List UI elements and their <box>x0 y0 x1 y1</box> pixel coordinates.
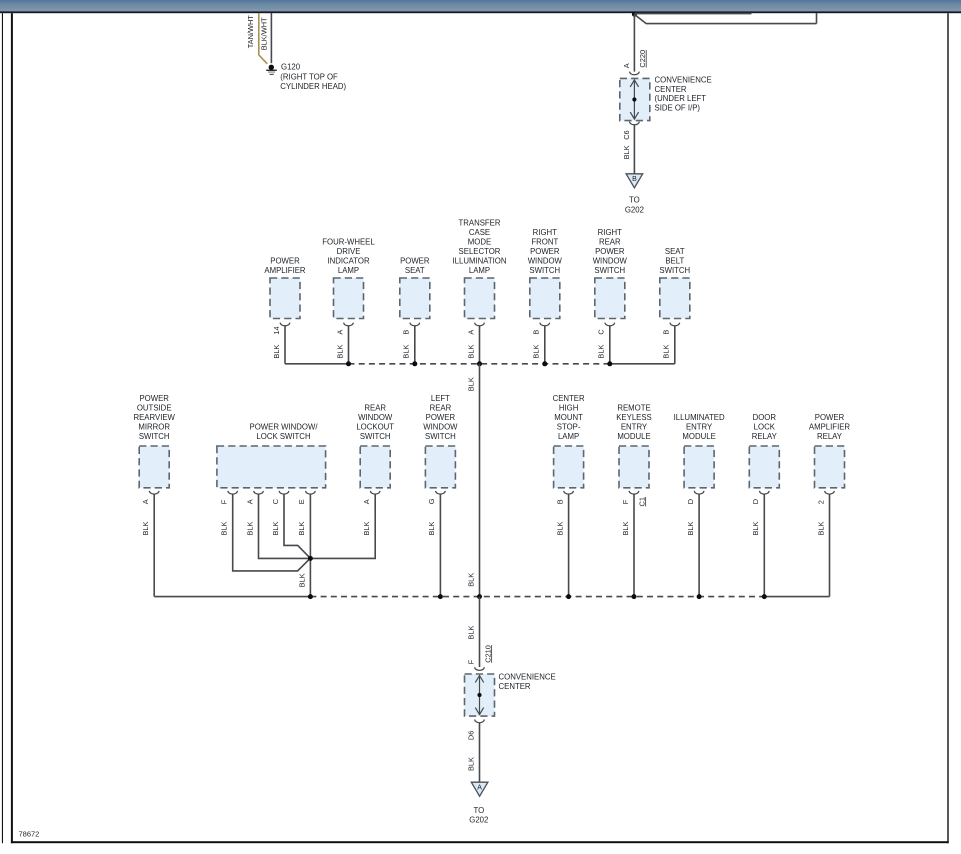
svg-text:A: A <box>141 499 150 504</box>
wire BLK down to bus 2 at x=634.0 <box>633 494 635 596</box>
svg-text:LAMP: LAMP <box>558 432 579 441</box>
page header bar <box>0 0 961 11</box>
svg-text:CONVENIENCE: CONVENIENCE <box>499 673 556 682</box>
connector cup C6 <box>630 122 640 125</box>
svg-text:BLK: BLK <box>662 345 671 359</box>
connector cup illuminated entry module <box>694 491 704 494</box>
label left rear power window switch <box>423 394 458 441</box>
component box right rear power window switch <box>595 278 625 319</box>
connector cup door lock relay <box>760 491 770 494</box>
junction dot on bus 1 at x=348.5 <box>346 361 351 366</box>
svg-text:POWER: POWER <box>139 394 169 403</box>
wire BLK down to bus 2 at x=699.1 <box>698 494 700 596</box>
connector cup pin F power window/lock switch <box>228 491 238 494</box>
svg-text:SWITCH: SWITCH <box>425 432 456 441</box>
wire BLK/WHT to G120 <box>270 13 272 63</box>
component box remote keyless entry module <box>619 446 649 488</box>
svg-text:POWER: POWER <box>595 247 625 256</box>
svg-text:CASE: CASE <box>469 228 490 237</box>
svg-text:BLK: BLK <box>245 521 254 535</box>
svg-text:BLK: BLK <box>751 521 760 535</box>
component box transfer case mode selector illumination lamp <box>465 278 495 319</box>
junction dot on bus 2 at x=568.6 <box>566 594 571 599</box>
svg-text:BLK: BLK <box>621 521 630 535</box>
wire BLK from right front power window switch to ground bus <box>544 326 546 364</box>
svg-text:LOCK: LOCK <box>754 422 776 431</box>
component box power window/lock switch <box>217 446 326 488</box>
svg-text:TRANSFER: TRANSFER <box>458 219 500 228</box>
svg-text:G: G <box>427 498 436 504</box>
svg-text:POWER: POWER <box>815 413 845 422</box>
svg-text:STOP-: STOP- <box>557 422 581 431</box>
label remote keyless entry module <box>616 403 652 441</box>
svg-text:BLK: BLK <box>466 573 475 587</box>
svg-text:REMOTE: REMOTE <box>617 403 650 412</box>
svg-text:ENTRY: ENTRY <box>686 422 713 431</box>
svg-text:MIRROR: MIRROR <box>138 422 170 431</box>
svg-text:A: A <box>466 330 475 335</box>
label power seat <box>400 257 430 276</box>
label TO G202 (top right) <box>625 195 644 214</box>
wire from splice to C220 <box>633 14 635 72</box>
junction dot on bus 2 at x=634.0 <box>632 594 637 599</box>
component box left rear power window switch <box>425 446 455 488</box>
svg-text:F: F <box>220 499 229 504</box>
label transfer case mode selector illumination lamp <box>452 219 506 276</box>
component box four-wheel drive indicator lamp <box>334 278 364 319</box>
wire BLK down to bus 2 at x=568.6 <box>568 494 570 596</box>
svg-text:LAMP: LAMP <box>469 266 490 275</box>
wire BLK from rear window lockout switch to splice <box>311 494 375 558</box>
svg-text:REAR: REAR <box>430 403 452 412</box>
wire BLK from D6 to ground G202 (bottom) <box>479 723 481 782</box>
label power window/lock switch <box>250 422 319 441</box>
svg-text:D6: D6 <box>466 731 475 740</box>
svg-text:DOOR: DOOR <box>753 413 777 422</box>
wire BLK pin F to splice <box>233 494 310 571</box>
svg-text:BLK: BLK <box>298 573 307 587</box>
label rear window lockout switch <box>356 403 394 441</box>
connector cup power seat <box>410 323 420 326</box>
svg-text:MODULE: MODULE <box>682 432 715 441</box>
svg-text:WINDOW: WINDOW <box>358 413 393 422</box>
svg-text:WINDOW: WINDOW <box>528 257 563 266</box>
svg-text:A: A <box>477 784 482 791</box>
ground symbol B to G202 <box>626 174 643 188</box>
svg-text:D: D <box>751 499 760 504</box>
svg-text:D: D <box>686 499 695 504</box>
svg-text:SWITCH: SWITCH <box>529 266 560 275</box>
svg-text:OUTSIDE: OUTSIDE <box>137 403 172 412</box>
wire BLK down to bus 2 at x=440.4 <box>439 494 441 596</box>
wire BLK pin A to splice <box>259 494 310 558</box>
svg-text:C: C <box>271 498 280 504</box>
component box illuminated entry module <box>684 446 714 488</box>
svg-text:REAR: REAR <box>364 403 386 412</box>
svg-text:LEFT: LEFT <box>431 394 450 403</box>
svg-text:FRONT: FRONT <box>531 238 558 247</box>
component box right front power window switch <box>530 278 560 319</box>
component box power seat <box>400 278 430 319</box>
connector cup power outside rearview mirror switch <box>149 491 159 494</box>
connector cup C210 <box>475 667 485 670</box>
junction dot on bus 2 at x=699.1 <box>697 594 702 599</box>
label seat belt switch <box>659 247 690 275</box>
svg-text:C1: C1 <box>637 497 646 506</box>
wire BLK pin C to splice <box>284 494 310 558</box>
svg-text:(UNDER LEFT: (UNDER LEFT <box>655 94 707 103</box>
svg-text:POWER: POWER <box>530 247 560 256</box>
label power amplifier <box>264 257 306 276</box>
svg-text:BLK/WHT: BLK/WHT <box>260 17 269 50</box>
wire BLK from power amplifier to ground bus <box>284 326 286 364</box>
svg-text:CENTER: CENTER <box>655 85 687 94</box>
svg-text:B: B <box>555 499 564 504</box>
svg-text:A: A <box>245 499 254 504</box>
component box rear window lockout switch <box>360 446 390 488</box>
svg-text:REAR: REAR <box>599 238 621 247</box>
svg-text:B: B <box>532 330 541 335</box>
connector cup pin E power window/lock switch <box>306 491 316 494</box>
svg-text:RIGHT: RIGHT <box>533 228 557 237</box>
wire BLK pin E through splice to bus 2 <box>309 494 311 596</box>
trunk wire BLK between bus 1 and bus 2 <box>479 364 481 597</box>
svg-text:CENTER: CENTER <box>499 682 531 691</box>
svg-text:C: C <box>597 329 606 335</box>
svg-text:LOCK SWITCH: LOCK SWITCH <box>256 432 310 441</box>
junction dot on bus 1 at x=609.8 <box>607 361 612 366</box>
convenience center box (bottom) <box>465 674 495 716</box>
label G120 (RIGHT TOP OF CYLINDER HEAD) <box>280 63 346 92</box>
wire BLK from right rear power window switch to ground bus <box>609 326 611 364</box>
svg-text:BLK: BLK <box>141 521 150 535</box>
wire BLK from seat belt switch to ground bus <box>674 326 676 364</box>
ground G120 symbol <box>266 65 277 75</box>
label power amplifier relay <box>809 413 851 441</box>
connector cup four-wheel drive indicator lamp <box>344 323 354 326</box>
junction dot on bus 2 at x=764.3 <box>762 594 767 599</box>
connector cup power amplifier relay <box>825 491 835 494</box>
svg-text:A: A <box>362 499 371 504</box>
label TO G202 (bottom) <box>469 806 488 824</box>
connector cup right rear power window switch <box>605 323 615 326</box>
svg-text:ILLUMINATED: ILLUMINATED <box>674 413 725 422</box>
svg-text:MODULE: MODULE <box>617 432 650 441</box>
connector cup rear window lockout switch <box>370 491 380 494</box>
svg-text:POWER WINDOW/: POWER WINDOW/ <box>250 422 319 431</box>
svg-text:RELAY: RELAY <box>817 432 843 441</box>
junction dot on bus 1 at x=414.8 <box>412 361 417 366</box>
svg-text:(RIGHT TOP OF: (RIGHT TOP OF <box>280 72 338 81</box>
svg-text:F: F <box>466 659 475 664</box>
svg-text:BLK: BLK <box>427 521 436 535</box>
wire BLK from power seat to ground bus <box>414 326 416 364</box>
junction dot on bus 2 at x=479.5 <box>477 594 482 599</box>
svg-text:DRIVE: DRIVE <box>337 247 361 256</box>
partial component box top-right inner edge <box>634 13 751 15</box>
svg-text:C6: C6 <box>622 130 631 139</box>
page frame left thin line <box>2 13 3 843</box>
svg-text:TO: TO <box>473 806 484 815</box>
page frame bottom line <box>11 841 949 843</box>
wire BLK from bus 2 to C210 <box>479 597 481 667</box>
junction dot at top splice <box>632 12 637 17</box>
svg-text:SELECTOR: SELECTOR <box>459 247 501 256</box>
svg-text:LOCKOUT: LOCKOUT <box>356 422 394 431</box>
svg-text:BLK: BLK <box>597 345 606 359</box>
svg-text:BLK: BLK <box>335 345 344 359</box>
svg-text:POWER: POWER <box>400 257 430 266</box>
svg-text:BLK: BLK <box>362 521 371 535</box>
page frame left thick line <box>11 13 13 843</box>
svg-text:SWITCH: SWITCH <box>594 266 625 275</box>
svg-text:BLK: BLK <box>466 345 475 359</box>
ground bus row 2 solid left segment <box>154 596 310 598</box>
svg-text:BLK: BLK <box>272 345 281 359</box>
svg-text:G202: G202 <box>625 205 644 214</box>
connector cup power amplifier <box>280 323 290 326</box>
svg-text:TAN/WHT: TAN/WHT <box>246 15 255 49</box>
page frame right line <box>947 13 948 843</box>
svg-text:BLK: BLK <box>686 521 695 535</box>
svg-text:C220: C220 <box>638 50 647 68</box>
svg-text:A: A <box>622 63 631 68</box>
convenience center internal circuit (bottom, arrows and splice) <box>475 676 483 715</box>
svg-text:A: A <box>335 330 344 335</box>
svg-text:14: 14 <box>272 326 281 334</box>
svg-text:BLK: BLK <box>555 521 564 535</box>
connector cup right front power window switch <box>540 323 550 326</box>
label power outside rearview mirror switch <box>133 394 175 441</box>
svg-text:TO: TO <box>629 195 640 204</box>
svg-text:SEAT: SEAT <box>665 247 685 256</box>
ground bus row 1 solid left segment <box>285 363 349 365</box>
label center high mount stop-lamp <box>553 394 585 441</box>
label CONVENIENCE CENTER (UNDER LEFT SIDE OF I/P) <box>655 76 712 113</box>
component box power outside rearview mirror switch <box>139 446 169 488</box>
svg-text:INDICATOR: INDICATOR <box>327 257 370 266</box>
svg-text:ENTRY: ENTRY <box>621 422 648 431</box>
component box power amplifier relay <box>815 446 845 488</box>
svg-text:RIGHT: RIGHT <box>598 228 622 237</box>
connector cup left rear power window switch <box>436 491 446 494</box>
svg-text:ILLUMINATION: ILLUMINATION <box>452 257 506 266</box>
svg-text:B: B <box>632 176 637 183</box>
svg-text:MODE: MODE <box>468 238 491 247</box>
svg-text:SEAT: SEAT <box>405 266 425 275</box>
svg-text:78672: 78672 <box>19 830 40 839</box>
ground symbol A to G202 (bottom) <box>471 782 488 796</box>
svg-text:HIGH: HIGH <box>559 403 579 412</box>
svg-text:BLK: BLK <box>532 345 541 359</box>
svg-text:SIDE OF I/P): SIDE OF I/P) <box>655 104 701 113</box>
wire BLK from transfer case mode selector illumination lamp to ground bus <box>479 326 481 364</box>
svg-text:CONVENIENCE: CONVENIENCE <box>655 76 712 85</box>
svg-text:BLK: BLK <box>622 145 631 159</box>
ground bus row 1 dashed segment <box>349 363 610 365</box>
svg-text:BLK: BLK <box>816 521 825 535</box>
connector cup pin C power window/lock switch <box>279 491 289 494</box>
svg-text:WINDOW: WINDOW <box>593 257 628 266</box>
splice junction dot (power window/lock circuit) <box>308 556 313 561</box>
wire BLK to ground G202 (top right) <box>633 125 635 174</box>
convenience center internal circuit (arrows and splice) <box>630 80 638 119</box>
connector cup seat belt switch <box>670 323 680 326</box>
label right front power window switch <box>528 228 563 275</box>
partial component box top-right lower edge <box>635 15 817 24</box>
connector cup D6 <box>475 720 485 723</box>
svg-text:BELT: BELT <box>665 257 684 266</box>
component box seat belt switch <box>660 278 690 319</box>
svg-text:2: 2 <box>816 500 825 504</box>
svg-text:BLK: BLK <box>271 521 280 535</box>
connector cup transfer case mode selector illumination lamp <box>475 323 485 326</box>
svg-text:KEYLESS: KEYLESS <box>616 413 652 422</box>
component box power amplifier <box>270 278 300 319</box>
svg-text:AMPLIFIER: AMPLIFIER <box>264 266 306 275</box>
connector cup pin A power window/lock switch <box>254 491 264 494</box>
svg-text:AMPLIFIER: AMPLIFIER <box>809 422 851 431</box>
svg-text:POWER: POWER <box>426 413 456 422</box>
junction dot on bus 2 at x=440.4 <box>438 594 443 599</box>
ground bus row 2 solid right segment <box>764 596 829 598</box>
svg-text:G202: G202 <box>469 816 488 825</box>
svg-text:C210: C210 <box>483 645 492 663</box>
svg-text:BLK: BLK <box>297 521 306 535</box>
svg-text:RELAY: RELAY <box>752 432 778 441</box>
svg-text:BLK: BLK <box>466 626 475 640</box>
convenience center box (top right) <box>620 78 650 120</box>
partial component box top-right right edge <box>816 13 818 24</box>
wire BLK from mirror switch down to bus 2 <box>153 494 155 596</box>
junction dot on bus 1 at x=544.8 <box>542 361 547 366</box>
svg-text:SWITCH: SWITCH <box>659 266 690 275</box>
label CONVENIENCE CENTER (bottom) <box>499 673 556 691</box>
label four-wheel drive indicator lamp <box>322 238 375 276</box>
svg-text:POWER: POWER <box>270 257 300 266</box>
svg-text:CENTER: CENTER <box>553 394 585 403</box>
svg-text:B: B <box>402 330 411 335</box>
svg-text:SWITCH: SWITCH <box>139 432 170 441</box>
wire BLK from power amplifier relay down to bus 2 <box>829 494 831 596</box>
ground bus row 1 solid right segment <box>610 363 675 365</box>
svg-text:B: B <box>662 330 671 335</box>
svg-text:F: F <box>621 499 630 504</box>
svg-text:BLK: BLK <box>466 757 475 771</box>
svg-text:CYLINDER HEAD): CYLINDER HEAD) <box>280 82 346 91</box>
connector cup remote keyless entry module <box>629 491 639 494</box>
svg-text:BLK: BLK <box>466 377 475 391</box>
svg-text:LAMP: LAMP <box>338 266 359 275</box>
junction dot on bus 2 at x=310.4 <box>308 594 313 599</box>
svg-text:E: E <box>297 499 306 504</box>
wire BLK from four-wheel drive indicator lamp to ground bus <box>348 326 350 364</box>
wire TAN/WHT to G120 <box>259 13 267 64</box>
junction dot on bus 1 at x=479.5 <box>477 361 482 366</box>
svg-text:BLK: BLK <box>220 521 229 535</box>
svg-text:WINDOW: WINDOW <box>423 422 458 431</box>
label right rear power window switch <box>593 228 628 275</box>
connector cup center high mount stop-lamp <box>564 491 574 494</box>
wire BLK down to bus 2 at x=764.3 <box>763 494 765 596</box>
connector cup C220 <box>630 72 640 75</box>
svg-text:MOUNT: MOUNT <box>554 413 583 422</box>
ground bus row 2 dashed segment <box>310 596 764 598</box>
svg-text:FOUR-WHEEL: FOUR-WHEEL <box>322 238 375 247</box>
component box center high mount stop-lamp <box>554 446 584 488</box>
svg-text:BLK: BLK <box>402 345 411 359</box>
svg-text:G120: G120 <box>281 63 301 72</box>
component box door lock relay <box>749 446 779 488</box>
svg-text:SWITCH: SWITCH <box>360 432 391 441</box>
svg-text:REARVIEW: REARVIEW <box>133 413 175 422</box>
label door lock relay <box>752 413 778 441</box>
label illuminated entry module <box>674 413 725 441</box>
